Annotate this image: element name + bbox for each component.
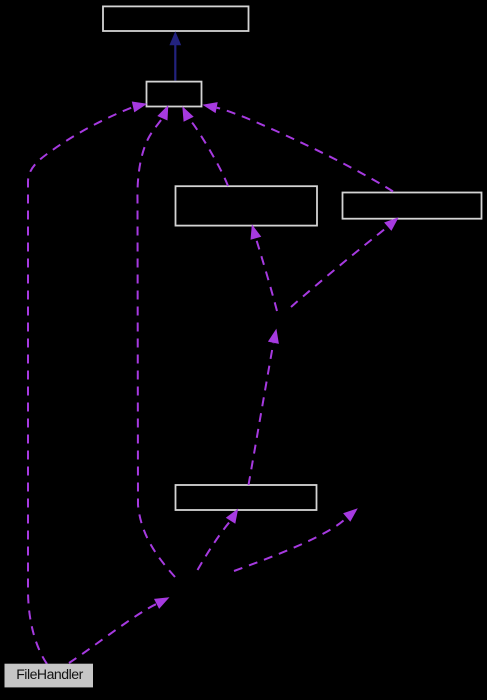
edge box3->box2 [182,106,228,186]
edge box5->hubY [249,329,279,485]
edge FileHandler->box2 (left curve) [28,102,147,665]
node box2 (upper hub) [147,82,202,107]
edge box4->box2 [202,102,393,191]
edge hubX->hidden-right [234,508,358,571]
svg-text:FileHandler: FileHandler [16,666,83,682]
edge FileHandler->hubX [69,597,170,663]
node box5 (lower middle) [176,485,317,510]
node box3 (middle left) [176,186,318,225]
edge hubX->box2 (inner curve) [137,105,175,577]
node box1 (top) [103,6,249,31]
edge hubY->box4 [291,217,399,307]
edge hubY->box3 [251,224,278,311]
node FileHandler [5,664,94,688]
edge box2->box1 (solid inheritance arrow) [169,31,181,80]
edge hubX->box5 [198,509,239,571]
node box4 (middle right) [343,193,482,219]
